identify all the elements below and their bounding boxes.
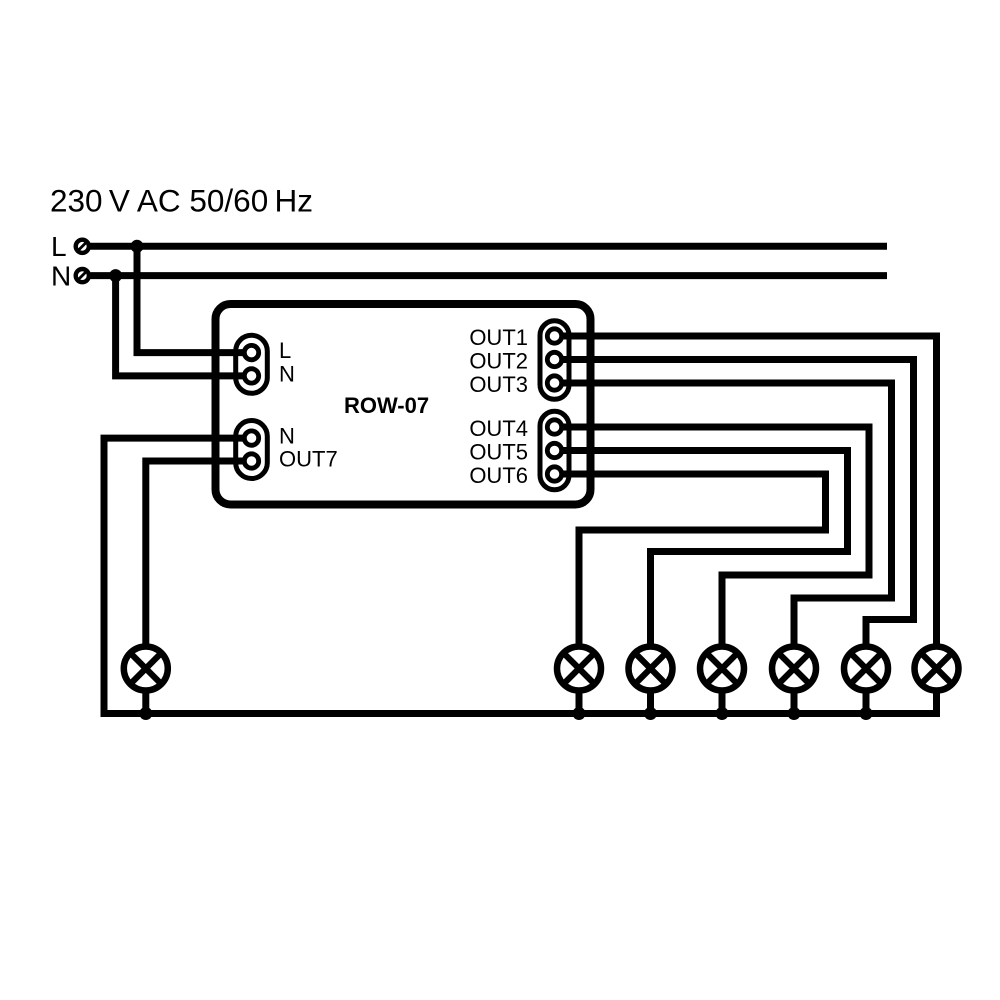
wire OUT2 to lamp 5 [556, 360, 914, 644]
junction dot L [131, 240, 144, 253]
terminal N input [76, 269, 89, 282]
lamp 3 [700, 647, 744, 718]
lamp 1 [557, 647, 601, 718]
svg-text:230 V AC 50/60 Hz: 230 V AC 50/60 Hz [50, 183, 313, 219]
wire N drop to box [116, 272, 248, 376]
connector block N/OUT7 [236, 421, 268, 479]
wire OUT7 to lamp 0 [146, 461, 248, 644]
wire N rail [91, 272, 888, 279]
wire OUT6 to lamp 1 [556, 474, 826, 644]
pin OUT1 [547, 329, 561, 343]
pin OUT7 [244, 454, 258, 468]
connector block L/N [236, 335, 268, 393]
svg-text:ROW-07: ROW-07 [344, 393, 429, 418]
lamp 6 [915, 647, 959, 718]
junction dot lamp 0 [139, 707, 152, 720]
svg-text:OUT6: OUT6 [469, 463, 528, 488]
junction dot lamp 4 [788, 707, 801, 720]
connector block OUT4-6 [540, 411, 569, 490]
junction dot lamp 3 [716, 707, 729, 720]
lamp 2 [629, 647, 673, 718]
wire OUT1 to lamp 6 [556, 336, 937, 644]
wire L rail [91, 243, 888, 250]
svg-text:OUT5: OUT5 [469, 440, 528, 465]
wire L drop to box [137, 243, 248, 353]
svg-text:N: N [279, 424, 295, 449]
pin OUT3 [547, 376, 561, 390]
svg-text:OUT3: OUT3 [469, 372, 528, 397]
pin N [244, 369, 258, 383]
pin L [244, 345, 258, 359]
junction dot lamp 5 [860, 707, 873, 720]
pin N return [244, 431, 258, 445]
box U1 ROW-07 [216, 304, 591, 505]
svg-text:L: L [51, 231, 67, 262]
junction dot N [109, 269, 122, 282]
junction dot lamp 1 [573, 707, 586, 720]
wire OUT5 to lamp 2 [556, 451, 848, 644]
pin OUT6 [547, 467, 561, 481]
svg-text:OUT1: OUT1 [469, 325, 528, 350]
wire OUT3 to lamp 4 [556, 383, 892, 644]
wire N return and bottom rail [104, 438, 940, 713]
junction dot lamp 2 [644, 707, 657, 720]
wire OUT4 to lamp 3 [556, 427, 869, 644]
svg-text:OUT7: OUT7 [279, 447, 338, 472]
pin OUT4 [547, 420, 561, 434]
svg-text:N: N [279, 362, 295, 387]
svg-text:OUT2: OUT2 [469, 349, 528, 374]
svg-text:L: L [279, 338, 291, 363]
svg-text:N: N [51, 261, 71, 292]
pin OUT2 [547, 352, 561, 366]
pin OUT5 [547, 443, 561, 457]
lamp 0 [124, 647, 168, 718]
terminal L input [76, 240, 89, 253]
connector block OUT1-3 [540, 321, 569, 400]
lamp 4 [772, 647, 816, 718]
svg-text:OUT4: OUT4 [469, 416, 528, 441]
lamp 5 [844, 647, 888, 718]
